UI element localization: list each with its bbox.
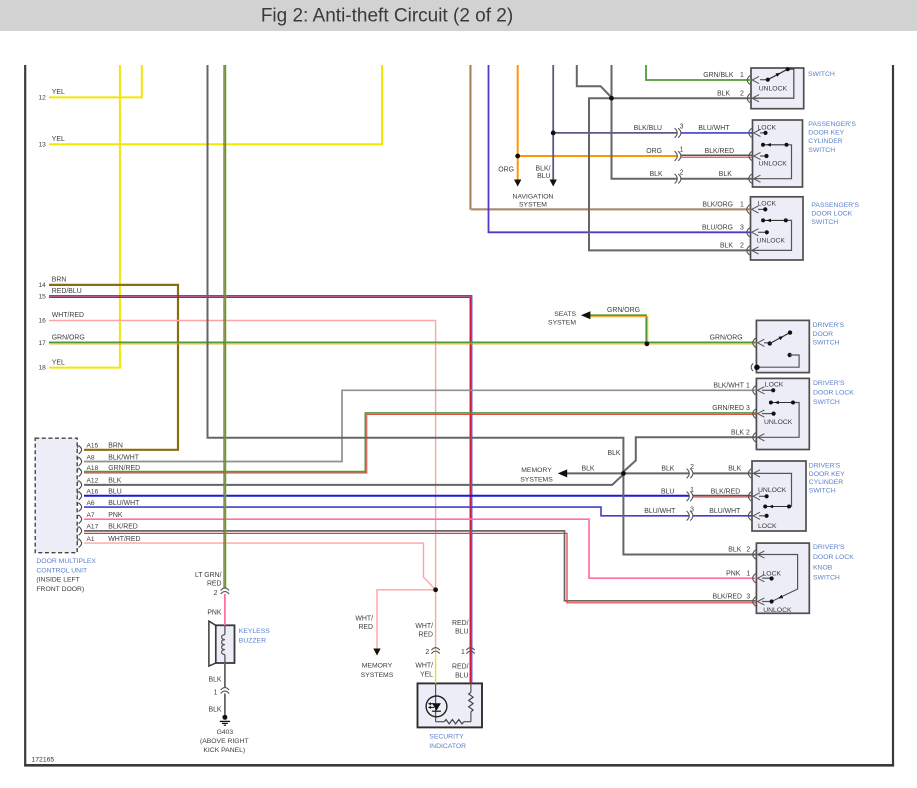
svg-text:RED/: RED/ <box>452 620 469 627</box>
svg-text:WHT/: WHT/ <box>415 623 433 630</box>
label BLK/BLU (navigation) <box>536 166 551 181</box>
label 2 (buzzer connector) <box>214 590 218 597</box>
svg-text:A16: A16 <box>87 489 99 496</box>
svg-text:DRIVER'S: DRIVER'S <box>813 544 845 551</box>
label WHT/RED (memory branch) <box>355 616 373 632</box>
driver cylinder pin1 connector <box>748 492 760 501</box>
wire BLK/BLU vertical to navigation system <box>552 65 554 180</box>
svg-text:BLK: BLK <box>108 478 121 485</box>
label BLK (buzzer lower) <box>208 677 221 684</box>
driver door key cylinder switch box <box>752 461 806 531</box>
svg-text:NAVIGATION: NAVIGATION <box>513 193 554 200</box>
wire BLK/RED to driver cylinder unlock red part <box>693 496 753 498</box>
knob switch pin1 connector <box>753 574 765 583</box>
svg-text:17: 17 <box>38 340 46 347</box>
passenger cylinder pin1 connector <box>749 151 761 160</box>
driver cylinder pin3 connector <box>748 511 760 520</box>
svg-text:GRN/BLK: GRN/BLK <box>703 72 734 79</box>
keyless buzzer cone <box>209 621 216 666</box>
svg-text:UNLOCK: UNLOCK <box>758 487 787 494</box>
pin 12 labels <box>38 89 65 101</box>
svg-text:1: 1 <box>746 570 750 577</box>
svg-text:3: 3 <box>690 507 694 514</box>
control unit pin A6 <box>78 503 82 512</box>
node BLK junction at U1 pin2 <box>609 96 614 101</box>
wire LT GRN/RED red part <box>223 65 225 589</box>
svg-text:2: 2 <box>425 649 429 656</box>
svg-text:YEL: YEL <box>52 89 65 96</box>
svg-text:1: 1 <box>690 487 694 494</box>
svg-text:BLK: BLK <box>661 466 674 473</box>
driver cylinder LOCK label <box>758 523 777 530</box>
control unit pin A16 <box>78 491 82 500</box>
svg-text:BLK/WHT: BLK/WHT <box>108 454 139 461</box>
svg-text:DOOR MULTIPLEX: DOOR MULTIPLEX <box>36 558 96 565</box>
svg-text:BLK: BLK <box>208 707 221 714</box>
label BLK (ground lead) <box>208 707 221 714</box>
label RED/BLU (indicator lower) <box>452 664 469 680</box>
label BLK 2 BLK (driver cylinder) <box>661 464 741 473</box>
svg-text:A15: A15 <box>87 443 99 450</box>
svg-text:RED/: RED/ <box>452 664 469 671</box>
svg-text:KEYLESS: KEYLESS <box>239 628 270 635</box>
svg-text:FRONT DOOR): FRONT DOOR) <box>36 586 84 593</box>
svg-text:BUZZER: BUZZER <box>239 638 266 645</box>
svg-text:UNLOCK: UNLOCK <box>759 85 788 92</box>
pin 18 labels <box>38 359 65 371</box>
svg-text:BLK: BLK <box>208 677 221 684</box>
wire BLK/ORG to passenger door lock switch pin1 black part <box>470 65 750 209</box>
label BLK 2 (driver lock) <box>731 430 750 437</box>
svg-text:BLK/WHT: BLK/WHT <box>713 383 744 390</box>
svg-text:SWITCH: SWITCH <box>808 147 835 154</box>
connector pin1 ORG-BLK/RED <box>675 151 681 161</box>
svg-text:DOOR: DOOR <box>813 331 833 338</box>
svg-text:BRN: BRN <box>108 443 123 450</box>
wire BLU/WHT to driver cylinder lock <box>693 515 753 517</box>
driver cylinder pin2 connector <box>748 469 760 478</box>
wire GRN/ORG branch to seats system orange part <box>590 317 648 344</box>
control unit pin A18 <box>78 468 82 477</box>
svg-text:PASSENGER'S: PASSENGER'S <box>811 202 859 209</box>
wire BLK from keyless buzzer <box>224 663 226 688</box>
svg-text:YEL: YEL <box>420 671 433 678</box>
svg-text:CONTROL UNIT: CONTROL UNIT <box>36 568 87 575</box>
control unit pin A17 <box>78 526 82 535</box>
svg-text:WHT/RED: WHT/RED <box>108 536 140 543</box>
label BLK/ORG 1 <box>702 202 744 209</box>
svg-text:GRN/RED: GRN/RED <box>712 405 744 412</box>
label 1 (indicator connector) <box>461 649 465 656</box>
ground G403 <box>220 715 230 725</box>
svg-text:A12: A12 <box>87 478 99 485</box>
memory systems label (BLK) <box>520 467 553 484</box>
seats system label <box>548 311 576 327</box>
svg-text:16: 16 <box>38 318 46 325</box>
label PNK (buzzer) <box>207 610 222 617</box>
wire A7 PNK <box>84 519 756 578</box>
wire pin13 YEL <box>49 65 382 144</box>
wire A16 BLU <box>84 495 689 497</box>
svg-text:SYSTEM: SYSTEM <box>519 201 547 208</box>
label BLU 1 BLK/RED <box>661 487 740 496</box>
svg-text:SYSTEMS: SYSTEMS <box>361 672 394 679</box>
svg-text:BLU/WHT: BLU/WHT <box>644 508 676 515</box>
wire BLK/ORG to passenger door lock switch pin1 orange part <box>471 65 750 210</box>
svg-text:A6: A6 <box>87 500 95 507</box>
driver door switch label <box>813 322 845 347</box>
wire pin12 YEL <box>49 65 142 97</box>
svg-text:3: 3 <box>746 405 750 412</box>
svg-text:DRIVER'S: DRIVER'S <box>809 462 841 469</box>
svg-text:BLK: BLK <box>728 547 741 554</box>
svg-text:3: 3 <box>740 225 744 232</box>
driver cylinder switch internals <box>752 473 792 518</box>
wire BLK/BLU branch to passenger cylinder pin3 <box>553 132 677 134</box>
svg-text:(INSIDE LEFT: (INSIDE LEFT <box>36 577 79 584</box>
svg-text:1: 1 <box>740 202 744 209</box>
svg-text:1: 1 <box>746 383 750 390</box>
svg-text:SWITCH: SWITCH <box>808 71 835 78</box>
svg-text:SEATS: SEATS <box>554 311 576 318</box>
wire WHT/YEL to security indicator <box>435 653 437 684</box>
svg-text:GRN/RED: GRN/RED <box>108 465 140 472</box>
svg-text:BLU: BLU <box>661 489 674 496</box>
arrow to seats system <box>581 311 591 319</box>
label BLK (vertical at junction) <box>607 450 620 457</box>
keyless buzzer label <box>239 628 270 645</box>
wire pin16 WHT/RED <box>49 321 436 651</box>
pin 17 labels <box>38 335 84 347</box>
driver door lock switch label <box>813 380 854 406</box>
driver lock UNLOCK label <box>764 419 793 426</box>
arrow to memory systems (BLK) <box>558 469 568 477</box>
memory systems label (WHT/RED) <box>361 662 394 679</box>
svg-text:14: 14 <box>38 282 46 289</box>
switch U1 label <box>808 71 835 78</box>
driver door lock switch box <box>756 378 809 449</box>
node BLK junction <box>621 471 626 476</box>
svg-text:1: 1 <box>461 649 465 656</box>
wire BLK/RED to driver cylinder unlock black part <box>693 495 753 497</box>
wire BLK top to knob switch pin2 <box>208 65 757 555</box>
connector 2 LT GRN/RED - PNK <box>221 588 229 594</box>
driver lock pin3 connector <box>753 409 765 418</box>
svg-text:BLK: BLK <box>731 430 744 437</box>
label RED/BLU (indicator upper) <box>452 620 469 636</box>
svg-text:GRN/ORG: GRN/ORG <box>607 307 640 314</box>
passenger cylinder pin2 connector <box>749 174 761 183</box>
svg-text:INDICATOR: INDICATOR <box>429 743 466 750</box>
label GRN/RED 3 <box>712 405 750 412</box>
node ORG junction <box>515 154 520 159</box>
svg-text:2: 2 <box>740 243 744 250</box>
svg-text:BLK/BLU: BLK/BLU <box>634 125 662 132</box>
svg-text:BLK/RED: BLK/RED <box>711 489 741 496</box>
driver lock pin1 connector <box>753 386 765 395</box>
svg-text:WHT/RED: WHT/RED <box>52 312 84 319</box>
wire A12 BLK <box>84 474 623 485</box>
passenger door lock switch label <box>811 202 859 226</box>
wire A17 BLK/RED red part <box>84 533 756 602</box>
svg-text:BRN: BRN <box>52 277 67 284</box>
svg-text:YEL: YEL <box>52 359 65 366</box>
svg-text:A17: A17 <box>87 524 99 531</box>
node WHT/RED junction <box>433 587 438 592</box>
wire BLK diagonal feed <box>577 65 612 98</box>
svg-text:PNK: PNK <box>726 570 741 577</box>
wire BLK switch U1 pin2 to passenger door lock switch pin2 <box>589 98 751 250</box>
label BLK/WHT 1 <box>713 383 750 390</box>
svg-text:1: 1 <box>214 689 218 696</box>
svg-text:RED: RED <box>207 581 222 588</box>
svg-text:SECURITY: SECURITY <box>429 733 464 740</box>
connector 1 keyless buzzer <box>221 688 229 694</box>
label GRN/ORG (driver door switch) <box>710 335 743 342</box>
label GRN/BLK 1 <box>703 72 744 79</box>
wire BLK to ground G403 <box>224 694 226 715</box>
svg-text:BLK/: BLK/ <box>536 166 551 173</box>
switch U1 pin2 connector <box>747 94 759 103</box>
wire PNK to keyless buzzer <box>224 594 226 625</box>
svg-text:DOOR LOCK: DOOR LOCK <box>813 389 854 396</box>
passenger door lock switch internals <box>751 207 792 250</box>
connector pin3 BLK/BLU-BLU/WHT <box>675 128 681 138</box>
control unit pin A15 <box>78 445 82 454</box>
wire pin14 BRN to A15 <box>49 285 178 450</box>
svg-text:BLU/WHT: BLU/WHT <box>698 125 730 132</box>
svg-text:BLK: BLK <box>720 243 733 250</box>
svg-text:BLU: BLU <box>455 672 468 679</box>
svg-text:SWITCH: SWITCH <box>811 219 838 226</box>
switch U1 UNLOCK label <box>759 85 788 92</box>
svg-text:BLK: BLK <box>581 465 594 472</box>
driver door switch internals <box>751 330 799 371</box>
svg-text:BLK: BLK <box>719 171 732 178</box>
svg-text:SWITCH: SWITCH <box>813 575 840 582</box>
door multiplex control unit box <box>35 438 77 553</box>
svg-text:MEMORY: MEMORY <box>362 662 393 669</box>
svg-text:RED: RED <box>358 624 373 631</box>
control unit pin A12 <box>78 480 82 489</box>
svg-text:UNLOCK: UNLOCK <box>763 607 792 614</box>
ground G403 label <box>200 729 249 754</box>
wire A17 BLK/RED black part <box>84 531 756 601</box>
wire BLK to driver cylinder pin2 <box>623 472 689 474</box>
switch U1 pin1 connector <box>747 75 759 84</box>
passenger lock pin3 connector <box>747 228 759 237</box>
svg-text:BLK/RED: BLK/RED <box>713 594 743 601</box>
svg-text:UNLOCK: UNLOCK <box>757 237 786 244</box>
svg-text:WHT/: WHT/ <box>415 663 433 670</box>
svg-text:SWITCH: SWITCH <box>813 340 840 347</box>
label BLK 2 BLK (passenger cylinder) <box>650 169 733 178</box>
svg-text:3: 3 <box>680 124 684 131</box>
passenger cylinder switch internals <box>753 131 792 179</box>
svg-text:13: 13 <box>38 141 46 148</box>
driver door lock knob switch label <box>813 544 854 582</box>
svg-text:SYSTEMS: SYSTEMS <box>520 476 553 483</box>
label BLK/RED 3 <box>713 594 751 601</box>
driver door switch pin connector <box>753 338 765 347</box>
passenger cylinder LOCK label <box>758 125 777 132</box>
driver lock pin2 connector <box>753 433 765 442</box>
wire BLU/ORG to passenger door lock switch pin3 <box>489 65 751 232</box>
svg-text:3: 3 <box>746 594 750 601</box>
svg-text:DOOR KEY: DOOR KEY <box>808 130 844 137</box>
door multiplex control unit label <box>36 558 96 593</box>
keyless buzzer coil <box>222 625 225 663</box>
keyless buzzer body <box>216 625 235 663</box>
svg-text:ORG: ORG <box>498 167 514 174</box>
svg-text:18: 18 <box>38 365 46 372</box>
connector pin2 BLK-BLK <box>675 174 681 184</box>
svg-text:1: 1 <box>740 72 744 79</box>
switch U1 internals <box>751 67 794 98</box>
wire pin15 RED/BLU red part <box>49 297 470 683</box>
driver cylinder UNLOCK label <box>758 487 787 494</box>
wire BLK vertical to passenger cylinder pin2 <box>612 65 678 179</box>
svg-text:A8: A8 <box>87 454 95 461</box>
wire A18 GRN/RED red part <box>84 414 756 473</box>
driver door lock knob switch box <box>756 543 809 613</box>
svg-text:15: 15 <box>38 294 46 301</box>
figure number 172165 <box>32 757 55 764</box>
svg-text:(ABOVE RIGHT: (ABOVE RIGHT <box>200 738 249 745</box>
svg-text:LOCK: LOCK <box>758 201 777 208</box>
security indicator label <box>429 733 466 750</box>
svg-text:BLU: BLU <box>455 629 468 636</box>
knob switch internals <box>756 555 797 604</box>
svg-text:LT GRN/: LT GRN/ <box>195 572 222 579</box>
wire pin17 GRN/ORG orange part <box>49 343 756 345</box>
svg-text:GRN/ORG: GRN/ORG <box>52 335 85 342</box>
wire A18 GRN/RED green part <box>84 413 756 472</box>
wire ORG branch to passenger cylinder pin1 <box>518 155 677 157</box>
connector 1 RED/BLU <box>466 648 474 654</box>
svg-text:2: 2 <box>214 590 218 597</box>
svg-text:YEL: YEL <box>52 136 65 143</box>
svg-text:PNK: PNK <box>207 610 222 617</box>
label BLU/ORG 3 <box>702 225 744 232</box>
arrow to memory systems (WHT/RED) <box>373 649 380 656</box>
label BLK (memory branch) <box>581 465 594 472</box>
svg-text:172165: 172165 <box>32 757 55 764</box>
wire pin18 YEL vertical <box>49 65 120 368</box>
wire GRN/ORG branch to seats system green part <box>590 315 646 344</box>
wire GRN/BLK to switch U1 pin1 <box>646 65 751 80</box>
driver door switch box <box>756 320 809 372</box>
label ORG (navigation) <box>498 167 514 174</box>
label BLK 2 (passenger lock) <box>720 243 744 250</box>
pin 15 labels <box>38 288 81 300</box>
node BLK/BLU junction <box>551 131 556 136</box>
wire BLK/RED to passenger cylinder unlock black part <box>681 154 753 156</box>
arrow to navigation system (ORG) <box>514 180 521 187</box>
svg-text:LOCK: LOCK <box>758 125 777 132</box>
svg-text:Fig 2: Anti-theft Circuit (2 o: Fig 2: Anti-theft Circuit (2 of 2) <box>261 6 513 27</box>
connector 2 WHT/RED - WHT/YEL <box>431 648 439 654</box>
passenger lock pin2 connector <box>747 246 759 255</box>
svg-text:BLU: BLU <box>537 173 550 180</box>
control unit pin A8 <box>78 457 82 466</box>
security indicator LED D1 <box>426 683 447 721</box>
passenger cylinder UNLOCK label <box>759 161 788 168</box>
knob switch LOCK label <box>763 570 782 577</box>
svg-text:BLK/ORG: BLK/ORG <box>702 202 733 209</box>
svg-text:2: 2 <box>740 90 744 97</box>
svg-text:BLK: BLK <box>717 90 730 97</box>
svg-text:A1: A1 <box>87 536 95 543</box>
svg-text:A18: A18 <box>87 465 99 472</box>
svg-text:CYLINDER: CYLINDER <box>808 138 842 145</box>
svg-text:PNK: PNK <box>108 512 123 519</box>
wire pin17 GRN/ORG green part <box>49 341 756 343</box>
svg-text:BLK: BLK <box>607 450 620 457</box>
svg-text:BLK/RED: BLK/RED <box>108 524 138 531</box>
svg-text:BLK: BLK <box>728 466 741 473</box>
svg-text:12: 12 <box>38 94 46 101</box>
label BLK 2 (knob) <box>728 547 750 554</box>
passenger lock pin1 connector <box>747 205 759 214</box>
label LT GRN/RED <box>195 572 222 588</box>
wire BLK after connector to passenger cylinder pin2 <box>681 178 753 180</box>
label 1 (buzzer connector) <box>214 689 218 696</box>
svg-text:DRIVER'S: DRIVER'S <box>813 380 845 387</box>
wire A6 BLU/WHT <box>84 507 689 516</box>
svg-text:BLU: BLU <box>108 489 121 496</box>
svg-text:BLK/RED: BLK/RED <box>705 148 735 155</box>
node GRN/ORG junction <box>645 341 650 346</box>
svg-text:BLU/WHT: BLU/WHT <box>108 500 140 507</box>
control unit pin A1 <box>78 539 82 548</box>
svg-text:2: 2 <box>746 547 750 554</box>
passenger lock UNLOCK label <box>757 237 786 244</box>
svg-text:KNOB: KNOB <box>813 564 833 571</box>
svg-text:BLU/ORG: BLU/ORG <box>702 225 733 232</box>
svg-text:MEMORY: MEMORY <box>521 467 552 474</box>
wire A1 WHT/RED <box>84 543 436 590</box>
svg-text:CYLINDER: CYLINDER <box>809 479 843 486</box>
svg-text:UNLOCK: UNLOCK <box>764 419 793 426</box>
connector pin1 BLU-BLK/RED <box>687 492 693 502</box>
svg-text:1: 1 <box>680 147 684 154</box>
wire ORG vertical to navigation system <box>517 65 519 180</box>
svg-text:SWITCH: SWITCH <box>813 399 840 406</box>
svg-text:ORG: ORG <box>646 148 662 155</box>
label ORG 1 BLK/RED <box>646 147 734 156</box>
svg-text:SYSTEM: SYSTEM <box>548 320 576 327</box>
svg-text:2: 2 <box>690 464 694 471</box>
label 2 (indicator connector) <box>425 649 429 656</box>
svg-text:SWITCH: SWITCH <box>809 488 836 495</box>
wire BLK branch to memory systems <box>567 472 623 474</box>
wire pin15 RED/BLU blue part <box>49 296 472 684</box>
control unit pin A7 <box>78 515 82 524</box>
passenger door key cylinder switch box <box>753 120 803 187</box>
connector pin2 BLK driver cylinder <box>687 469 693 479</box>
svg-text:2: 2 <box>680 169 684 176</box>
svg-text:WHT/: WHT/ <box>355 616 373 623</box>
svg-text:RED/BLU: RED/BLU <box>52 288 82 295</box>
label BLK 2 (U1) <box>717 90 744 97</box>
svg-text:BLU/WHT: BLU/WHT <box>709 508 741 515</box>
svg-text:LOCK: LOCK <box>758 523 777 530</box>
switch U1 box (top right SWITCH) <box>751 68 804 109</box>
label GRN/ORG (seats branch) <box>607 307 640 314</box>
wire LT GRN/RED green part <box>224 65 226 589</box>
navigation system label <box>513 193 554 208</box>
